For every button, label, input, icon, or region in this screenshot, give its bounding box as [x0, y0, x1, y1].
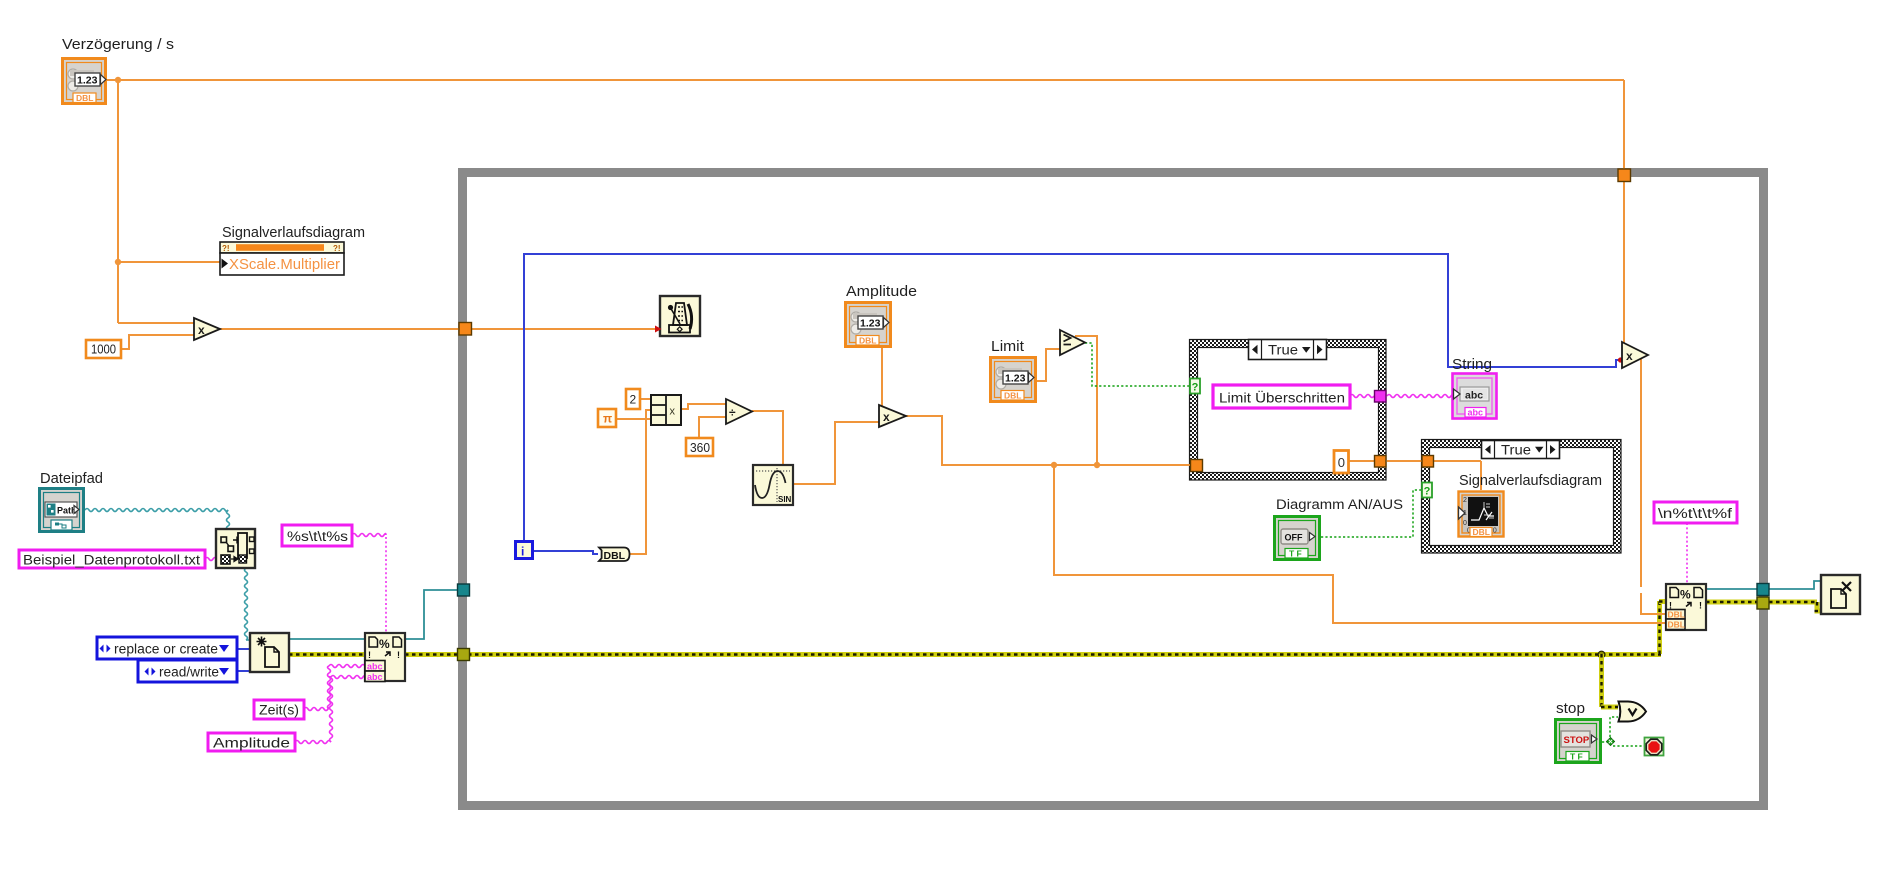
svg-text:x: x	[198, 323, 205, 337]
numeric control Verzoegerung / s	[63, 59, 107, 104]
junction dot at (1054,465)	[1051, 462, 1057, 468]
Format Into String node (header writer)	[365, 633, 405, 682]
svg-text:DBL: DBL	[76, 93, 93, 103]
constant 360	[686, 438, 713, 456]
wire multiply2 down to Format-Into-File DBL row 1 (with crossing gap)	[1641, 358, 1668, 614]
svg-text:1.23: 1.23	[860, 318, 881, 330]
svg-text:Zeit(s): Zeit(s)	[259, 703, 299, 718]
constant 2	[626, 389, 640, 409]
svg-text:x: x	[883, 410, 890, 424]
Wait (ms) node with metronome icon	[655, 296, 700, 336]
svg-text:abc: abc	[367, 662, 383, 672]
selector tunnel green question case1	[1190, 379, 1200, 394]
enum constant replace or create	[97, 637, 237, 659]
sine function node	[753, 465, 793, 505]
wire error olive Format-Into-String through left tunnel to right side	[405, 599, 1668, 657]
boolean control Diagramm AN/AUS (OFF)	[1275, 517, 1320, 560]
svg-text:abc: abc	[1465, 390, 1483, 402]
wire blue i terminal to DBL-convert	[534, 551, 598, 554]
tunnel orange on case2 left border	[1422, 456, 1434, 468]
wire branch up to greater-equal input	[1075, 336, 1097, 465]
wire pink Limit Ueberschritten to tunnel to String indicator (zigzag)	[1350, 395, 1374, 398]
wire pink format string %s to Format-Into-String (zigzag then dotted)	[352, 534, 386, 537]
constant pi	[598, 409, 616, 427]
svg-text:String: String	[1452, 356, 1492, 373]
svg-text:0: 0	[1463, 520, 1467, 527]
wire blue enum read-write to Open node	[237, 670, 250, 672]
svg-text:Beispiel_Datenprotokoll.txt: Beispiel_Datenprotokoll.txt	[23, 553, 200, 568]
wire green dashed greater-equal to case1 selector	[1085, 343, 1190, 386]
wire error olive branch down to or-gate	[1599, 654, 1618, 710]
wire teal Build Path down to Open node (zigzag)	[245, 568, 248, 640]
wire teal refnum Format-Into-String to left tunnel	[405, 590, 458, 639]
svg-text:\n%t\t\t%f: \n%t\t\t%f	[1658, 506, 1732, 521]
string constant \n%t\t\t%f	[1654, 502, 1737, 523]
while loop conditional terminal (stop sign)	[1645, 738, 1664, 756]
svg-text:÷: ÷	[729, 406, 736, 420]
svg-text:SIN: SIN	[778, 495, 792, 504]
tunnel orange on case1 left border	[1191, 460, 1203, 472]
svg-text:i: i	[521, 545, 524, 559]
svg-text:abc: abc	[1468, 408, 1484, 418]
svg-text:T F: T F	[1570, 752, 1583, 762]
Or gate node	[1619, 702, 1647, 722]
svg-text:?: ?	[1424, 486, 1431, 498]
wire sine to multiply3	[793, 422, 879, 484]
wire Verzoegerung to top tunnel and multiply2 (orange)	[107, 80, 1624, 169]
greater-or-equal node	[1060, 330, 1085, 355]
svg-text:Signalverlaufsdiagram: Signalverlaufsdiagram	[222, 224, 365, 241]
svg-text:x: x	[670, 406, 676, 418]
svg-text:read/write: read/write	[159, 665, 219, 680]
wire constant pi to compound arithmetic	[616, 418, 651, 420]
svg-text:1.23: 1.23	[77, 75, 98, 87]
svg-text:!: !	[368, 650, 371, 660]
wire pink string Beispiel constant to Build Path (zigzag)	[205, 558, 216, 561]
wire constant 2 to compound arithmetic	[640, 398, 651, 400]
svg-text:T F: T F	[1289, 549, 1302, 559]
svg-text:Verzögerung / s: Verzögerung / s	[62, 36, 174, 53]
wire orange vertical inside loop from top tunnel to multiply2	[1623, 181, 1625, 344]
wire blue from i terminal around loop to multiply2	[524, 254, 1622, 540]
tunnel orange on loop top border	[1618, 169, 1631, 182]
svg-text:1000: 1000	[91, 342, 116, 357]
svg-text:?!: ?!	[222, 244, 230, 253]
wire error olive Open to Format-Into-String	[289, 652, 365, 657]
olive junction dot	[1598, 651, 1605, 658]
svg-text:DBL: DBL	[604, 550, 626, 562]
compound arithmetic multiply node	[651, 395, 681, 425]
wire Limit control to greater-equal	[1037, 349, 1060, 381]
svg-text:1.23: 1.23	[1005, 373, 1026, 385]
wire pink Amplitude-string to Format-Into-String row2 (zigzag)	[295, 741, 331, 744]
svg-text:Amplitude: Amplitude	[846, 283, 917, 300]
tunnel olive on loop left border	[458, 649, 470, 661]
svg-text:Amplitude: Amplitude	[213, 736, 290, 751]
junction dot at (1097,465)	[1094, 462, 1100, 468]
svg-text:STOP: STOP	[1564, 735, 1590, 746]
junction dot at (118,80)	[115, 77, 121, 83]
svg-text:True: True	[1268, 342, 1298, 358]
svg-text:DBL: DBL	[1668, 610, 1685, 620]
svg-text:Limit Überschritten: Limit Überschritten	[1219, 389, 1345, 406]
case structure 2 border (chart case)	[1422, 440, 1622, 554]
wire teal refnum Open to Format-Into-String	[289, 638, 365, 640]
constant 1000	[86, 340, 121, 358]
string constant Zeit(s)	[254, 700, 304, 719]
wire divide to sine	[752, 411, 783, 465]
wire error olive Format-Into-File to right tunnel to Close File	[1706, 600, 1821, 614]
wire blue enum replace-or-create to Open node	[237, 648, 250, 650]
wire multiply1 to left tunnel to Wait node	[220, 328, 656, 330]
svg-text:?: ?	[1192, 382, 1199, 394]
string constant Amplitude	[208, 733, 295, 751]
case structure 2 selector label "True"	[1482, 441, 1560, 459]
wire branch down long run to Format-Into-File DBL row 2	[1054, 465, 1668, 623]
path control Dateipfad	[40, 489, 84, 532]
To-DBL conversion node	[599, 548, 630, 563]
svg-text:Limit: Limit	[991, 338, 1025, 355]
Close File node	[1821, 575, 1860, 614]
tunnel teal on loop left border	[458, 584, 470, 596]
svg-text:π: π	[603, 412, 612, 426]
tunnel orange on case1 right border	[1375, 456, 1387, 468]
wire teal path Dateipfad to Build Path (zigzag)	[85, 509, 228, 512]
svg-text:%: %	[379, 637, 390, 651]
property node (Signalverlaufsdiagram XScale.Multiplier)	[220, 242, 344, 275]
red coercion dot at multiply2	[1618, 357, 1623, 362]
svg-text:Diagramm AN/AUS: Diagramm AN/AUS	[1276, 497, 1403, 513]
green junction diamond	[1606, 737, 1614, 745]
wire constant 360 to divide	[699, 417, 726, 437]
wire Verzoegerung branch down to property node and multiply1	[118, 80, 220, 323]
svg-text:?!: ?!	[333, 244, 341, 253]
svg-text:%: %	[1680, 588, 1691, 602]
constant 0 (case1)	[1334, 451, 1349, 474]
svg-text:Dateipfad: Dateipfad	[40, 470, 103, 487]
wire green dashed Diagramm AN/AUS to case2 selector	[1321, 490, 1422, 537]
svg-text:DBL: DBL	[1004, 391, 1021, 401]
wire compound arithmetic to divide	[681, 404, 726, 409]
tunnel pink on case1 right border	[1375, 391, 1387, 403]
svg-text:XScale.Multiplier: XScale.Multiplier	[229, 257, 340, 273]
string constant %s\t\t%s	[282, 525, 352, 546]
svg-text:DBL: DBL	[859, 336, 876, 346]
wire pink Zeit(s) to Format-Into-String row1 (zigzag)	[304, 708, 329, 711]
case structure 1 selector label "True"	[1249, 340, 1327, 360]
enum constant read/write	[138, 660, 237, 682]
svg-text:x: x	[1626, 349, 1633, 363]
multiply node (multiply2, Verzoegerung x i)	[1622, 342, 1648, 368]
wire DBL-convert up to compound arithmetic	[630, 410, 651, 554]
svg-text:0: 0	[1338, 455, 1345, 470]
wire teal refnum Format-Into-File to right tunnel to Close File	[1706, 581, 1821, 589]
boolean control stop (STOP button)	[1556, 720, 1601, 763]
wire Amplitude control down to multiply3	[881, 348, 883, 409]
svg-text:!: !	[1699, 601, 1702, 611]
svg-text:2: 2	[630, 393, 637, 407]
string indicator String	[1453, 374, 1497, 419]
wire multiply3 to case1 tunnel	[906, 416, 1191, 465]
multiply node (multiply1, Verzoegerung x 1000)	[194, 318, 220, 340]
wire 1000 to multiply1	[121, 335, 194, 349]
svg-text:!: !	[397, 650, 400, 660]
Build Path node	[216, 529, 255, 568]
string constant Beispiel_Datenprotokoll.txt	[19, 550, 205, 568]
junction dot at (118,262)	[115, 259, 121, 265]
svg-text:%s\t\t%s: %s\t\t%s	[287, 529, 348, 544]
svg-text:DBL: DBL	[1668, 620, 1685, 630]
selector tunnel green question case2	[1422, 483, 1432, 498]
tunnel olive on loop right border	[1757, 597, 1769, 609]
string constant Limit Ueberschritten	[1213, 385, 1350, 408]
svg-text:OFF: OFF	[1285, 533, 1303, 543]
svg-text:DBL: DBL	[1473, 527, 1490, 537]
svg-text:2: 2	[1463, 497, 1467, 504]
numeric control Limit	[991, 358, 1036, 402]
multiply node (multiply3, sine x Amplitude)	[879, 405, 906, 427]
svg-text:stop: stop	[1556, 700, 1585, 717]
svg-text:360: 360	[690, 440, 710, 455]
wire constant 0 through tunnels to chart terminal	[1349, 461, 1481, 490]
case structure 1 border (Limit Ueberschritten case)	[1190, 340, 1387, 481]
waveform chart terminal (Signalverlaufsdiagram in case2)	[1459, 492, 1504, 538]
divide node	[726, 399, 752, 424]
while loop border	[463, 173, 1764, 806]
iteration terminal i	[516, 542, 533, 559]
Format Into File node	[1666, 584, 1706, 630]
svg-text:abc: abc	[367, 672, 383, 682]
wire orange overlay into Format-Into-File rows (drawn above error wire)	[1641, 593, 1668, 623]
Open/Create/Replace File node	[250, 633, 289, 672]
tunnel orange on loop left border	[459, 323, 472, 336]
svg-text:True: True	[1501, 442, 1531, 458]
numeric control Amplitude	[846, 303, 891, 347]
tunnel teal on loop right border	[1757, 584, 1769, 596]
wire pink dotted format string to Format-Into-File	[1686, 523, 1688, 584]
svg-text:replace or create: replace or create	[114, 642, 218, 657]
svg-text:Signalverlaufsdiagram: Signalverlaufsdiagram	[1459, 472, 1602, 489]
wire green dashed stop button to or-gate and loop condition	[1602, 717, 1644, 746]
